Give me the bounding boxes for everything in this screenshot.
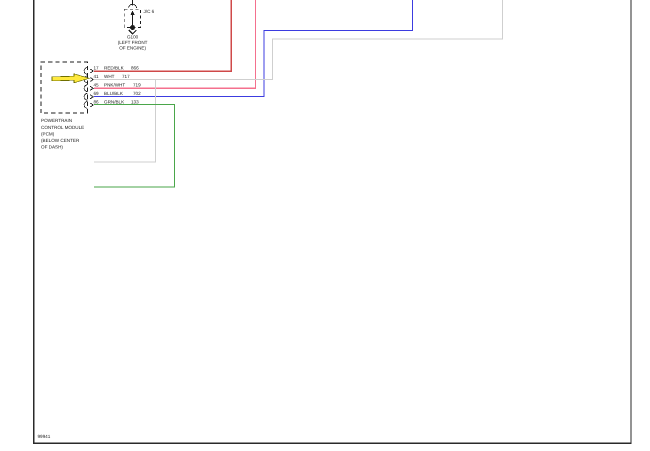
svg-text:POWERTRAIN: POWERTRAIN	[41, 118, 72, 123]
svg-text:45: 45	[94, 83, 100, 88]
ground G100	[118, 25, 148, 50]
svg-text:86: 86	[94, 99, 100, 104]
svg-text:J/C 6: J/C 6	[144, 9, 155, 14]
wire GRN/BLK 133	[94, 105, 174, 187]
PCM pin 17 label RED/BLK 866	[94, 65, 140, 70]
wire BLU/BLK 702	[94, 0, 413, 97]
svg-text:702: 702	[133, 91, 141, 96]
PCM pin 69 label BLU/BLK 702	[94, 91, 142, 96]
svg-text:17: 17	[94, 65, 100, 70]
PCM pin 69 connector	[84, 93, 93, 100]
PCM pin 86 connector	[84, 102, 93, 109]
svg-text:WHT: WHT	[104, 74, 115, 79]
svg-text:G100: G100	[127, 35, 139, 40]
svg-text:866: 866	[131, 65, 139, 70]
wire PNK/WHT 719	[94, 0, 256, 88]
svg-text:99941: 99941	[38, 434, 51, 439]
svg-text:717: 717	[122, 74, 130, 79]
svg-text:BLU/BLK: BLU/BLK	[104, 91, 124, 96]
svg-text:133: 133	[131, 99, 139, 104]
svg-text:RED/BLK: RED/BLK	[104, 65, 125, 70]
PCM pin 41 connector	[84, 76, 93, 83]
powertrain control module (PCM) box	[41, 62, 88, 150]
svg-text:GRN/BLK: GRN/BLK	[104, 99, 125, 104]
svg-text:69: 69	[94, 91, 100, 96]
junction connector J/C 6	[124, 9, 154, 27]
PCM pin 86 label GRN/BLK 133	[94, 99, 140, 104]
diagram number label 99941	[38, 434, 51, 439]
PCM pin 17 connector	[84, 68, 93, 75]
wire to junction connector J/C 6 (top)	[129, 0, 137, 8]
svg-text:CONTROL MODULE: CONTROL MODULE	[41, 125, 84, 130]
svg-text:(BELOW CENTER: (BELOW CENTER	[41, 138, 80, 143]
svg-text:41: 41	[94, 74, 100, 79]
svg-text:PNK/WHT: PNK/WHT	[104, 83, 125, 88]
svg-text:(PCM): (PCM)	[41, 131, 55, 136]
wire WHT 717	[94, 0, 502, 162]
yellow highlight arrow at PCM pin 41	[52, 74, 89, 83]
svg-text:OF ENGINE): OF ENGINE)	[119, 45, 146, 50]
PCM pin 41 label WHT 717	[94, 74, 131, 79]
PCM pin 45 label PNK/WHT 719	[94, 83, 142, 88]
PCM pin 45 connector	[84, 85, 93, 92]
svg-text:(LEFT FRONT: (LEFT FRONT	[118, 40, 148, 45]
wire RED/BLK 866	[94, 0, 231, 71]
svg-text:OF DASH): OF DASH)	[41, 145, 63, 150]
svg-text:719: 719	[133, 83, 141, 88]
